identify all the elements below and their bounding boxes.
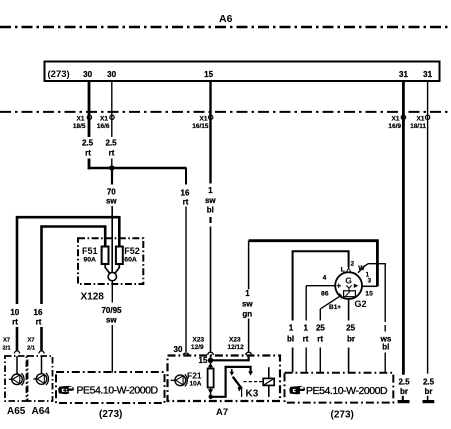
svg-text:1: 1 [245, 289, 250, 298]
terminal W (pin 1) [358, 266, 365, 273]
svg-text:12/12: 12/12 [228, 344, 245, 351]
svg-text:30: 30 [174, 345, 183, 354]
terminal L (pin 2) [348, 267, 350, 272]
wire 16rt down to A7 pin30 [185, 168, 187, 185]
wire 70sw down to X128 [111, 168, 113, 185]
fuse F51 [102, 247, 109, 265]
svg-text:rt: rt [85, 149, 91, 158]
svg-text:K3: K3 [246, 389, 259, 400]
wire continue down to A7 [210, 227, 212, 353]
svg-text:15: 15 [204, 70, 213, 79]
svg-text:15: 15 [365, 291, 373, 298]
svg-text:10: 10 [10, 308, 19, 317]
wire horizontal bus to A7 [88, 167, 187, 170]
svg-text:sw: sw [106, 197, 117, 206]
junction node [109, 165, 114, 170]
svg-text:1: 1 [208, 186, 213, 195]
svg-text:30: 30 [107, 70, 116, 79]
svg-text:2.5: 2.5 [82, 139, 94, 148]
svg-text:3: 3 [368, 278, 372, 285]
wire 2.5rt from second pin30 down (thin) [111, 81, 113, 137]
svg-text:X23: X23 [229, 337, 241, 344]
svg-text:1: 1 [303, 324, 308, 333]
svg-text:A7: A7 [216, 407, 228, 418]
svg-text:PE54.10-W-2000D: PE54.10-W-2000D [306, 385, 388, 397]
svg-text:F52: F52 [124, 246, 140, 256]
svg-text:18/5: 18/5 [73, 123, 86, 130]
svg-text:rt: rt [36, 318, 42, 327]
wire dash-dot rail second (harness boundary) [0, 111, 451, 113]
contact arrow right [248, 371, 253, 375]
box (273) top connector strip [45, 62, 440, 82]
relay actuation dashed link [244, 381, 264, 383]
svg-text:bl: bl [382, 343, 389, 352]
svg-text:2/1: 2/1 [3, 346, 12, 352]
connector arrow below fuse [210, 388, 212, 397]
fuse F21 [208, 369, 214, 388]
horn symbol in A7 [175, 375, 186, 386]
svg-text:70: 70 [107, 188, 116, 197]
svg-text:16: 16 [181, 189, 190, 198]
wire 1rt from pin4 to PE box [305, 286, 307, 321]
pointing hand icon right [289, 386, 305, 394]
wire dash segment [209, 217, 211, 223]
svg-text:31: 31 [423, 70, 432, 79]
svg-text:X1: X1 [392, 116, 400, 123]
svg-text:sw: sw [205, 196, 216, 205]
svg-text:X7: X7 [3, 338, 10, 344]
svg-text:25: 25 [316, 324, 325, 333]
svg-text:(273): (273) [331, 410, 354, 421]
svg-text:A64: A64 [32, 406, 51, 417]
horn symbol A65 [16, 356, 18, 374]
wire F51 bottom to junction [105, 264, 110, 273]
svg-text:90A: 90A [84, 256, 97, 263]
connector hook X23 12/9 [208, 352, 214, 355]
wire horn A65 feed (10rt) [17, 217, 119, 304]
terminal B1+ [320, 296, 339, 309]
connector hook X23 12/12 [246, 352, 252, 355]
svg-text:(273): (273) [48, 69, 70, 80]
svg-text:rt: rt [183, 198, 189, 207]
svg-text:10A: 10A [190, 381, 202, 388]
wire F52 bottom to junction [115, 264, 119, 273]
svg-text:G: G [345, 276, 352, 286]
svg-text:L: L [341, 267, 345, 274]
svg-text:X23: X23 [193, 337, 205, 344]
ground W10 (right) [427, 396, 429, 400]
wire continue to corner [88, 159, 91, 170]
wire 25br from G2 bottom to PE box [348, 299, 350, 321]
svg-text:B1+: B1+ [329, 304, 341, 311]
wire X23 12/9 hook to node 15 [210, 355, 212, 360]
svg-text:X1: X1 [77, 116, 85, 123]
connector X7 2/1 (A65) [14, 351, 19, 354]
connector X7 2/1 (A64) [39, 351, 44, 354]
wire 2.5br from pin31 down (thin) to ground [427, 81, 429, 374]
wire thick run to G2 terminal [249, 241, 378, 287]
svg-text:2/1: 2/1 [27, 346, 36, 352]
connector X1 18/11 symbol [425, 115, 429, 119]
connector X1 16/9 symbol [401, 115, 405, 119]
alternator G2 [335, 272, 362, 299]
svg-text:gn: gn [242, 309, 252, 318]
contact stub left [231, 369, 233, 372]
wire 1sw/bl from pin15 down (thick) [209, 81, 211, 184]
box A65 (fanfare horn) [5, 356, 27, 401]
box A64 (fanfare horn) [28, 356, 53, 401]
svg-text:31: 31 [399, 70, 408, 79]
box X128 terminal block (fuse holder) [78, 238, 143, 284]
svg-text:bl: bl [287, 335, 294, 344]
connector X1 16/6 symbol [110, 115, 114, 119]
wire 1bl from L to PE box [293, 251, 349, 320]
terminal DF (pin 4 / 86) [306, 285, 335, 287]
wire 15 to X23 12/12 [211, 355, 249, 361]
Y star symbol [346, 285, 351, 291]
wire 25rt from B1+ to PE box [319, 309, 321, 321]
wire 70/95sw from X128 to PE box [111, 281, 113, 303]
relay coil K3 [263, 378, 274, 385]
svg-text:16/9: 16/9 [388, 123, 401, 130]
svg-text:15: 15 [199, 356, 208, 365]
svg-text:1: 1 [289, 324, 294, 333]
svg-text:X7: X7 [28, 338, 35, 344]
svg-text:2.5: 2.5 [105, 139, 117, 148]
wire horn A64 feed (16rt) [42, 227, 106, 305]
svg-text:70/95: 70/95 [101, 306, 122, 315]
junction circle node [108, 272, 116, 280]
svg-text:18/11: 18/11 [410, 123, 426, 130]
relay contact blade K3 [233, 377, 242, 389]
svg-text:2.5: 2.5 [398, 378, 410, 387]
svg-text:F21: F21 [187, 370, 202, 380]
svg-text:rt: rt [109, 149, 115, 158]
brush mark left [337, 284, 341, 288]
svg-text:rt: rt [12, 318, 18, 327]
wire fuse to relay contact (n-path) [211, 367, 251, 397]
connector hook at A7 pin 30 [183, 353, 189, 355]
junction node 15 [208, 358, 213, 363]
svg-text:PE54.10-W-2000D: PE54.10-W-2000D [77, 385, 159, 397]
svg-text:A65: A65 [7, 406, 26, 417]
wire 1sw/gn from G2 terminal 15 to A7 X23 12/12 [248, 241, 250, 290]
box PE54 reference (left) [56, 372, 165, 403]
connector X1 18/5 symbol [87, 115, 91, 119]
svg-text:sw: sw [106, 316, 117, 325]
svg-text:sw: sw [242, 299, 253, 308]
box A7 control unit [168, 356, 281, 402]
diode mark right [354, 284, 359, 288]
svg-text:F51: F51 [82, 246, 98, 256]
svg-text:16: 16 [34, 308, 43, 317]
svg-text:25: 25 [346, 324, 355, 333]
wire dash-dot rail top (A6 boundary) [0, 26, 451, 28]
wire ws/bl from W to PE box [364, 264, 386, 322]
svg-text:rt: rt [317, 335, 323, 344]
svg-text:X128: X128 [81, 292, 105, 303]
ground W10 (left) [402, 396, 404, 400]
svg-text:A6: A6 [219, 13, 233, 25]
svg-text:12/9: 12/9 [191, 344, 204, 351]
svg-text:X1: X1 [100, 116, 108, 123]
horn symbol A64 [41, 356, 43, 374]
svg-text:X1: X1 [200, 116, 208, 123]
svg-text:16/15: 16/15 [192, 123, 209, 130]
wire 2.5br from pin31 down (thick) to ground [402, 81, 405, 375]
svg-text:br: br [400, 387, 408, 396]
svg-text:br: br [425, 387, 433, 396]
svg-text:4: 4 [323, 274, 327, 281]
junction node below fuse [209, 395, 213, 399]
pointing hand icon [58, 386, 74, 394]
svg-text:br: br [347, 335, 355, 344]
svg-text:2: 2 [351, 260, 355, 267]
svg-text:2.5: 2.5 [423, 378, 435, 387]
wire 2.5rt from pin30 down (thick) [88, 81, 91, 137]
connector arrow into fuse F21 [210, 360, 212, 368]
svg-text:bl: bl [207, 206, 214, 215]
connector X1 16/15 symbol [209, 115, 213, 119]
svg-text:16/6: 16/6 [97, 123, 110, 130]
regulator box inside G2 [344, 291, 356, 297]
fuse F52 [116, 247, 123, 265]
box PE54 reference (right) [285, 373, 394, 403]
svg-text:(273): (273) [99, 409, 122, 420]
svg-text:30: 30 [83, 70, 92, 79]
svg-text:rt: rt [303, 335, 309, 344]
svg-text:X1: X1 [417, 116, 425, 123]
svg-text:60A: 60A [124, 256, 137, 263]
svg-text:86: 86 [321, 291, 329, 298]
svg-text:G2: G2 [355, 299, 367, 309]
